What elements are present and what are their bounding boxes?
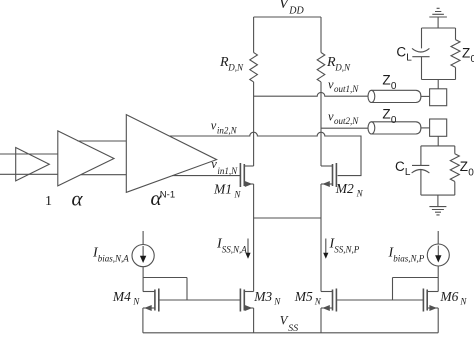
wire A2 outputs [78,141,127,175]
wire M6 diode tie [393,278,439,301]
node vout2N wire [321,127,368,129]
transmission line Z0 lower [368,122,375,134]
svg-text:0: 0 [471,54,474,65]
svg-text:C: C [395,159,405,174]
transistor M6 [427,291,438,293]
svg-text:SS,N,A: SS,N,A [222,244,248,254]
svg-text:Z: Z [460,159,468,174]
svg-text:bias,N,P: bias,N,P [393,253,425,263]
resistor RDN left [250,53,258,82]
ground bottom [429,195,446,215]
ground top (flipped) [429,8,447,28]
svg-text:M3: M3 [253,289,272,304]
node vout1N wire with hop [254,92,368,96]
wire TL2 to pad2 [421,127,430,129]
svg-text:0: 0 [391,115,397,126]
transistor M1 [244,165,253,167]
wire VSS bottom rail [143,332,438,334]
amplifier A2 (medium triangle) [58,131,114,186]
svg-text:M6: M6 [439,289,458,304]
wire M4-M3 gate line [159,299,241,301]
svg-text:in2,N: in2,N [217,126,238,136]
node vin2N wire with hops to M2 gate [169,132,361,175]
pad box 1 [430,89,447,106]
node vin1N wire to M1 gate [172,175,240,177]
wire M2 source down [320,184,322,292]
svg-text:0: 0 [391,81,397,92]
amplifier A1 (small triangle) [16,148,50,181]
svg-text:N: N [459,297,467,307]
resistor Z0 upper termination [451,40,460,68]
svg-text:SS: SS [288,323,298,334]
svg-text:M4: M4 [112,289,131,304]
wire left resistor to M1 drain [253,82,255,166]
wire M6 source down [437,308,439,333]
svg-text:0: 0 [468,168,474,179]
wire input pair left [0,154,58,174]
svg-text:L: L [406,53,412,64]
wire M1 source down [253,184,255,292]
svg-text:in1,N: in1,N [217,166,238,176]
svg-text:L: L [405,167,411,178]
svg-text:C: C [396,45,406,60]
transmission line Z0 upper [368,90,375,102]
svg-text:N-1: N-1 [160,190,175,201]
svg-text:M5: M5 [294,289,313,304]
termination loop lower [421,146,455,195]
wire right resistor to M2 drain [320,82,322,166]
transistor M2 [321,165,333,167]
current ISSNP arrow [325,239,327,254]
resistor RDN right [317,53,325,82]
wire IbiasNA to M4 drain [142,267,144,292]
wire M5-M6 gate line [336,299,423,301]
wire loop1 to pad1 [437,80,439,89]
transistor M3 [244,291,253,293]
svg-text:N: N [356,188,364,198]
amplifier A3 (large triangle) [126,115,216,193]
svg-text:v: v [211,118,217,132]
svg-text:DD: DD [288,5,304,16]
transistor M4 [143,291,155,293]
wire TL1 to pad1 [421,95,430,97]
svg-text:D,N: D,N [334,63,351,73]
current source IbiasNA [142,231,144,245]
svg-text:Z: Z [382,106,390,121]
svg-text:N: N [273,297,281,307]
svg-text:out2,N: out2,N [334,116,359,126]
capacitor CL lower [412,165,430,173]
wire pad2 to loop2 [437,136,439,146]
current source IbiasNP [437,231,439,244]
wire IbiasNP to M6 drain [437,266,439,292]
svg-text:α: α [72,187,84,211]
svg-text:Z: Z [382,72,390,87]
resistor Z0 lower termination [450,154,459,182]
svg-text:N: N [132,297,140,307]
capacitor CL upper [412,48,430,56]
termination loop upper [422,28,456,80]
wire rail to left resistor [253,17,255,53]
wire rail to right resistor [320,17,322,53]
svg-text:D,N: D,N [227,63,244,73]
svg-text:v: v [211,157,217,171]
wire tail crossbar [254,217,321,219]
pad box 2 [430,119,447,136]
svg-text:bias,N,A: bias,N,A [98,253,130,263]
svg-text:M2: M2 [335,181,354,196]
svg-text:N: N [314,297,322,307]
wire M3 source down [253,308,255,333]
svg-text:N: N [233,189,241,199]
svg-text:out1,N: out1,N [334,84,359,94]
svg-text:Z: Z [462,46,470,61]
wire M4 diode tie [143,278,187,301]
wire M4 source down [142,308,144,333]
svg-text:SS,N,P: SS,N,P [334,244,360,254]
svg-text:M1: M1 [213,181,232,196]
transistor M5 [321,291,333,293]
svg-text:1: 1 [45,194,52,209]
wire VDD top rail [254,16,321,18]
current ISSNA arrow [247,239,249,254]
wire M5 source down [320,308,322,333]
